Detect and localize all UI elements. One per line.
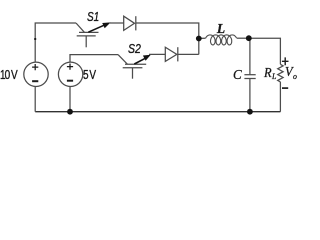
bottom rail	[35, 111, 280, 113]
label RL	[264, 65, 276, 82]
switch S1	[76, 22, 111, 47]
junction dot bottom 5V	[67, 109, 73, 115]
wire S2 to D2	[149, 53, 165, 55]
capacitor plates	[244, 74, 255, 76]
wire inductor to node B	[237, 37, 249, 39]
wire node A to inductor	[199, 37, 206, 39]
plus sign in 5V	[67, 64, 73, 70]
capacitor C branch top wire	[249, 38, 251, 74]
wire node B to RL top corner	[249, 38, 281, 64]
label S2	[128, 42, 141, 56]
inductor L coil	[206, 35, 237, 45]
switch S2	[118, 55, 151, 79]
5V bottom stem	[69, 87, 71, 112]
label C	[233, 68, 242, 84]
wire S1 to D1	[109, 22, 124, 24]
junction dot bottom C	[247, 109, 253, 115]
5V source circle	[58, 62, 82, 86]
label S1	[87, 10, 99, 24]
plus sign Vo	[282, 57, 289, 65]
wire 5V corner to S2	[70, 55, 118, 63]
resistor RL zigzag	[278, 64, 283, 82]
label L	[217, 21, 225, 37]
diode D2	[165, 47, 178, 61]
wire top branch from 10V corner to S1	[35, 23, 76, 62]
junction node B dot	[246, 35, 252, 41]
plus sign in 10V	[32, 64, 38, 70]
diode D1	[124, 16, 136, 30]
wire D2 to node A	[178, 53, 199, 55]
label Vo	[285, 64, 297, 81]
10V bottom stem	[34, 87, 36, 112]
label 10 V	[0, 68, 17, 82]
label 5 V	[83, 68, 95, 82]
10V source circle	[24, 62, 48, 86]
capacitor bottom wire	[249, 79, 251, 112]
wire D1 to node A	[136, 23, 199, 54]
minus sign in 10V	[32, 80, 38, 82]
artifact tick on 10V stem	[34, 38, 36, 40]
wire RL bottom	[279, 82, 281, 112]
minus sign Vo	[282, 87, 288, 89]
junction node A dot	[196, 36, 202, 42]
minus sign in 5V	[67, 80, 73, 82]
